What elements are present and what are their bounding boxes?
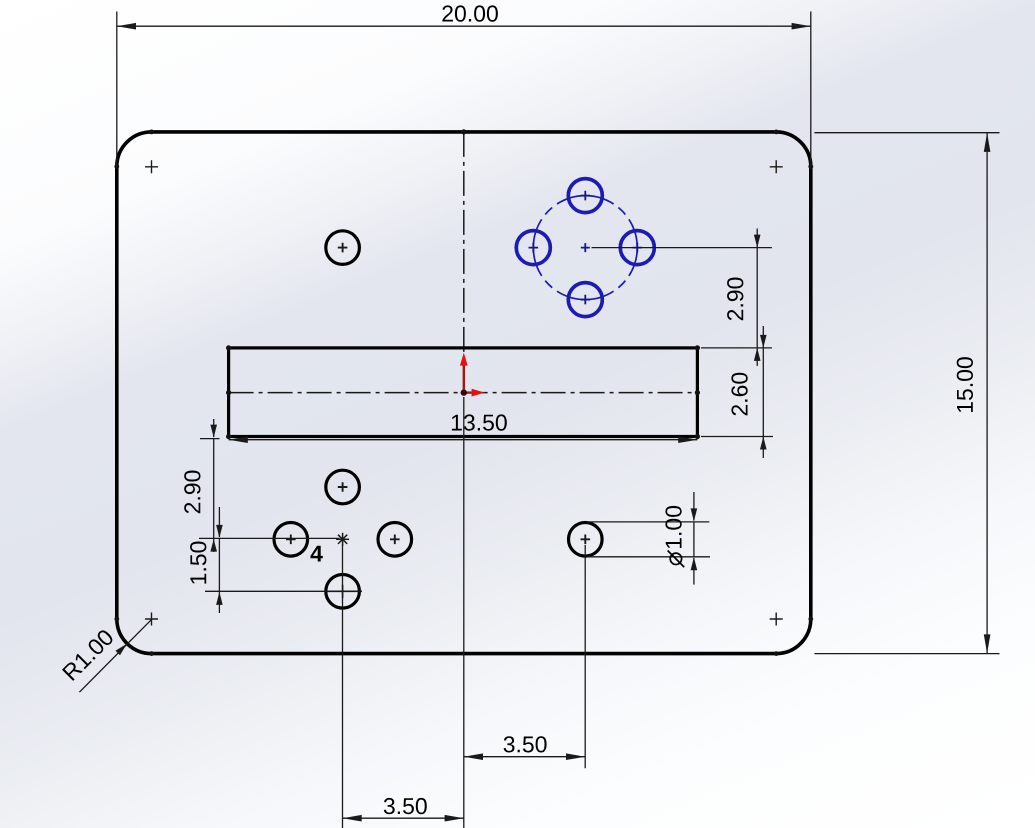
- hole A upper-left: [326, 231, 360, 265]
- fillet center mark bottom-right: [770, 613, 783, 626]
- blue hole C3 right: [620, 231, 654, 265]
- hole P2b pattern left: [274, 523, 308, 557]
- hole P2c pattern right: [378, 523, 412, 557]
- vertex dots: [114, 129, 813, 656]
- blue pattern center mark: [581, 243, 590, 252]
- dimension 13.50: [229, 439, 698, 441]
- slot top extension line right: [701, 347, 772, 349]
- dimension dia 1.00: [693, 492, 695, 585]
- dimension 1.50: [218, 507, 220, 613]
- hole B center mark: [581, 535, 591, 545]
- blue hole C1 top: [568, 179, 602, 213]
- pattern count label 4: [311, 546, 323, 562]
- blue hole C4 center mark: [581, 295, 591, 305]
- origin red arrows: [460, 353, 485, 397]
- slot outline: [229, 348, 698, 437]
- slot bottom extension line right: [701, 436, 773, 438]
- hole P2c center mark: [390, 535, 400, 545]
- hole B extension line down: [584, 545, 586, 768]
- hole B right: [569, 523, 603, 557]
- hole P2a center mark: [338, 482, 348, 492]
- fillet center mark top-left: [145, 160, 158, 173]
- pattern row extension line left: [199, 537, 340, 539]
- hole B top tangent extension line: [587, 521, 710, 523]
- fillet center mark top-right: [770, 160, 783, 173]
- blue hole C2 center mark: [529, 243, 539, 253]
- blue hole C1 center mark: [581, 191, 591, 201]
- dimension 3.50 left: [343, 817, 464, 819]
- blue construction circle: [533, 196, 637, 300]
- center extension line below origin: [463, 397, 465, 828]
- blue hole C4 bottom: [568, 283, 602, 317]
- blue hole C3 center mark: [633, 243, 643, 253]
- dimension 2.90 right: [756, 229, 758, 366]
- dimension 3.50 right: [464, 756, 585, 758]
- hole P2a pattern top: [326, 470, 360, 504]
- fillet center mark bottom-left: [145, 613, 158, 626]
- dimension 2.90 right extension line: [592, 247, 772, 249]
- hole P2b center mark: [286, 535, 296, 545]
- dimension R1.00 leader: [79, 619, 151, 692]
- hole P2d pattern bottom: [326, 575, 360, 609]
- pattern star extension line down: [342, 545, 344, 828]
- blue hole C2 left: [516, 231, 550, 265]
- hole P2d center mark: [325, 585, 362, 598]
- vertical centerline: [463, 132, 465, 393]
- dimension 2.60: [762, 326, 764, 458]
- plate outline: [117, 132, 811, 654]
- pattern star center mark: [336, 533, 349, 546]
- dimension 15.00: [814, 133, 999, 654]
- dimension 20.00: [117, 12, 811, 168]
- hole B bottom tangent extension line: [587, 556, 711, 558]
- dimension 2.90 left: [213, 419, 215, 552]
- slot bottom extension tick left: [200, 438, 220, 440]
- hole A center mark: [338, 243, 348, 253]
- horizontal centerline: [229, 392, 698, 394]
- bottom hole row extension line left: [205, 590, 325, 592]
